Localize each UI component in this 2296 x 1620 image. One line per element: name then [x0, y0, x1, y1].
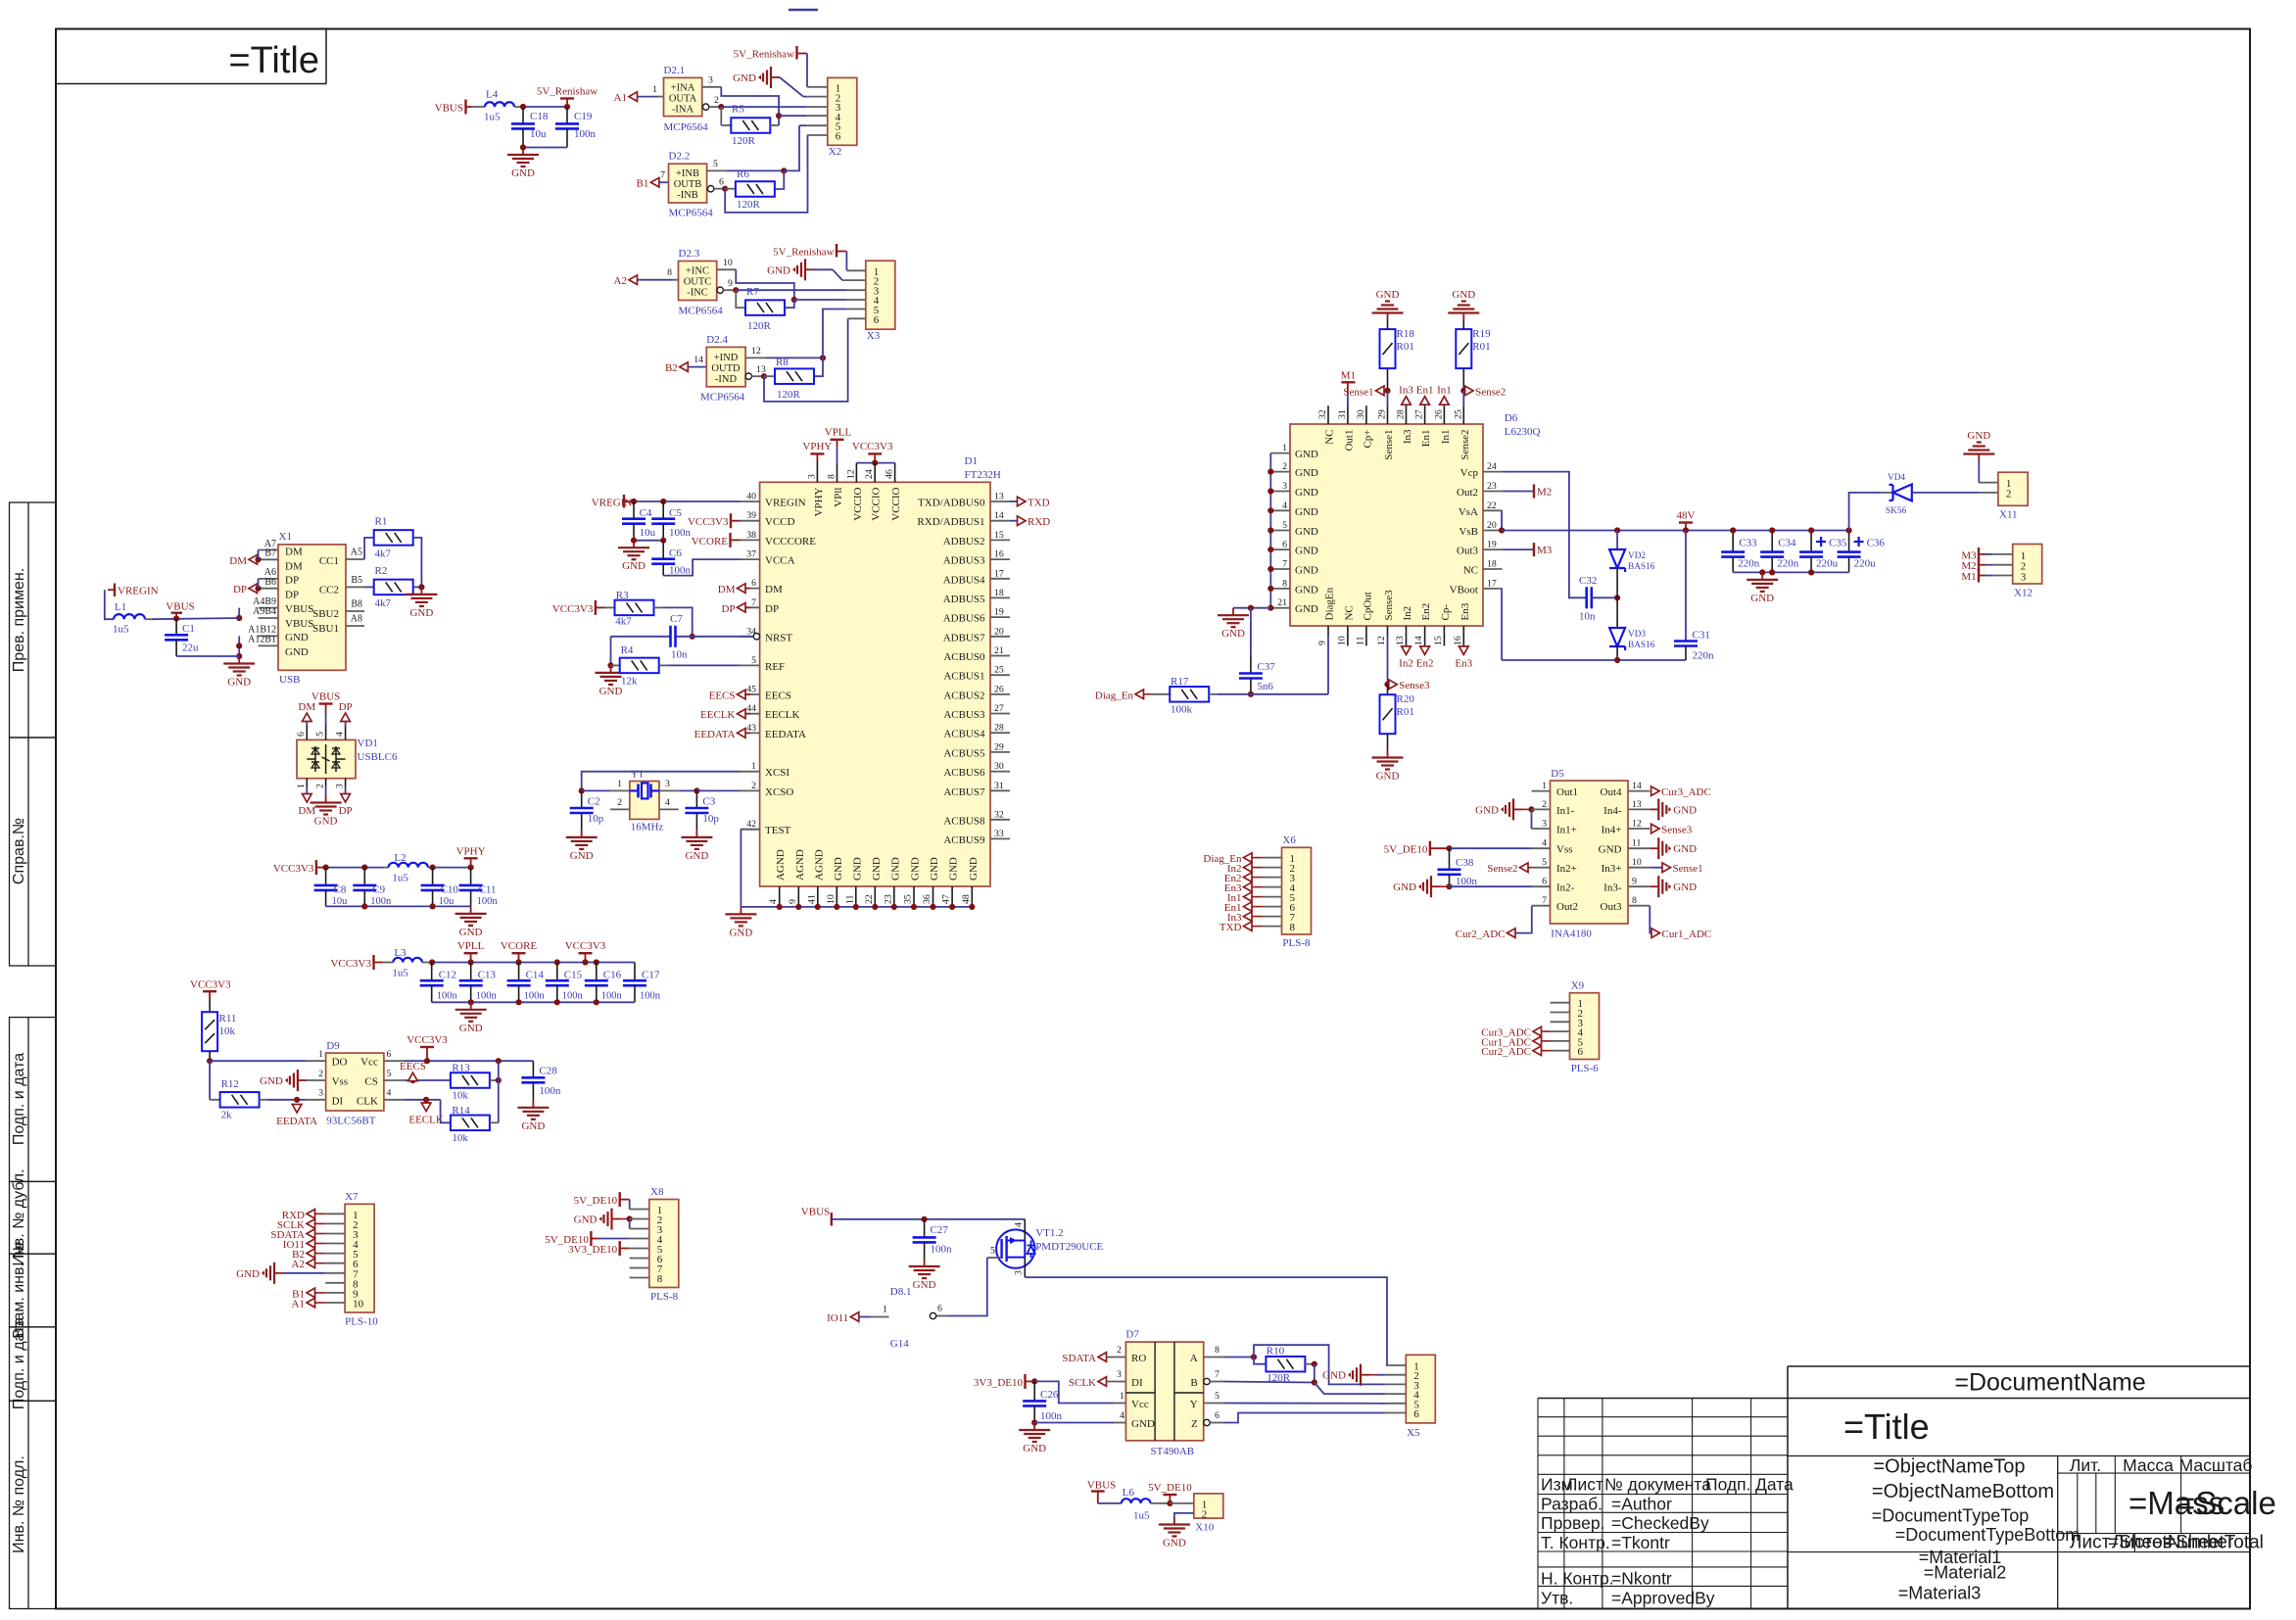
svg-text:VBUS: VBUS	[435, 103, 463, 115]
svg-text:B5: B5	[351, 575, 362, 586]
capacitor C37 5n6	[1250, 656, 1252, 674]
svg-text:C8: C8	[334, 884, 347, 896]
svg-text:VD4: VD4	[1888, 473, 1905, 483]
svg-text:2k: 2k	[221, 1110, 233, 1121]
wire X10 pin2 to GND	[1174, 1513, 1194, 1517]
svg-text:=Author: =Author	[1611, 1494, 1672, 1513]
ground GND right caps	[1761, 572, 1763, 580]
svg-text:C7: C7	[670, 613, 683, 625]
svg-text:B8: B8	[351, 599, 362, 610]
net flag DM at X1	[249, 555, 258, 565]
svg-text:4: 4	[334, 732, 345, 737]
svg-text:39: 39	[746, 510, 756, 521]
svg-text:27: 27	[994, 703, 1004, 714]
svg-text:9: 9	[728, 278, 733, 289]
resistor R2 4k7	[374, 580, 413, 596]
svg-text:2: 2	[1542, 799, 1547, 810]
net flag A1	[629, 92, 638, 102]
VT1 gate stub	[987, 1257, 1002, 1259]
svg-text:31: 31	[1337, 409, 1348, 419]
junction pin12 net	[820, 355, 826, 360]
net flag B2	[680, 362, 689, 372]
svg-text:Масштаб: Масштаб	[2179, 1455, 2253, 1475]
transistor VT1.2 PMDT290UCE	[996, 1229, 1034, 1267]
svg-text:Н. Контр.: Н. Контр.	[1541, 1569, 1614, 1589]
wire VREGIN down to L1	[105, 590, 114, 619]
svg-text:RO: RO	[1131, 1353, 1146, 1364]
svg-text:-INA: -INA	[672, 105, 694, 116]
junction C10	[430, 865, 436, 871]
svg-text:44: 44	[746, 703, 756, 714]
wire to R4	[611, 664, 620, 666]
svg-text:21: 21	[1277, 597, 1287, 608]
svg-text:16: 16	[994, 549, 1004, 560]
diode VD4 SK56	[1881, 492, 1893, 494]
svg-text:2: 2	[2006, 488, 2011, 500]
junction C26 bottom	[1031, 1419, 1037, 1425]
svg-text:12: 12	[845, 469, 856, 479]
wire A2 to D2.3 pin8	[638, 279, 674, 281]
net flag En1 up	[1420, 397, 1430, 405]
svg-text:AGND: AGND	[794, 849, 806, 881]
wire gate net to D8.1	[948, 1258, 987, 1316]
svg-text:A4B9: A4B9	[253, 596, 276, 607]
svg-text:C2: C2	[588, 796, 600, 808]
svg-text:GND: GND	[1673, 804, 1697, 816]
svg-text:In2: In2	[1402, 606, 1413, 621]
X9 pin flags Cur ADC	[1533, 1026, 1542, 1036]
svg-text:GND: GND	[685, 850, 708, 862]
svg-text:-INB: -INB	[677, 190, 698, 201]
svg-text:PLS-6: PLS-6	[1571, 1063, 1600, 1074]
svg-text:40: 40	[746, 492, 756, 502]
svg-text:Инв. № подл.: Инв. № подл.	[11, 1455, 27, 1553]
X11 pin stubs	[1979, 482, 1998, 484]
svg-text:D2.4: D2.4	[706, 334, 728, 346]
svg-text:3: 3	[708, 75, 713, 86]
svg-text:23: 23	[883, 894, 893, 904]
wire Vcp to C32	[1503, 472, 1586, 598]
svg-text:GND: GND	[889, 857, 901, 881]
svg-text:22: 22	[864, 894, 875, 904]
svg-text:27: 27	[1414, 409, 1425, 419]
svg-text:Подп. и дата: Подп. и дата	[11, 1053, 27, 1145]
resistor R8 120R	[775, 368, 814, 384]
svg-text:ACBUS6: ACBUS6	[943, 767, 985, 779]
svg-text:3V3_DE10: 3V3_DE10	[568, 1244, 618, 1256]
svg-text:A9B4: A9B4	[253, 606, 276, 617]
svg-text:DM: DM	[765, 584, 783, 596]
X7 pin9 pin10 flags	[307, 1288, 315, 1298]
wire GND row D7	[1034, 1422, 1114, 1424]
svg-text:En3: En3	[1455, 657, 1472, 669]
net flag EEDATA below D9	[292, 1105, 302, 1114]
wire M1 to Out1	[1347, 392, 1349, 405]
junction EECS	[409, 1077, 415, 1083]
svg-text:5V_Renishaw: 5V_Renishaw	[773, 247, 834, 259]
svg-text:En1: En1	[1416, 385, 1434, 397]
svg-text:D7: D7	[1125, 1329, 1139, 1341]
svg-text:R2: R2	[375, 565, 388, 577]
svg-text:17: 17	[994, 568, 1004, 579]
svg-text:Sense3: Sense3	[1399, 680, 1430, 691]
svg-text:Out3: Out3	[1601, 901, 1623, 913]
svg-text:R01: R01	[1397, 706, 1414, 718]
svg-text:INA4180: INA4180	[1551, 929, 1592, 940]
wire R18 to Sense1 junction	[1387, 368, 1389, 391]
ground GND below C3	[695, 830, 697, 837]
junction C27	[922, 1216, 928, 1222]
svg-text:6: 6	[719, 177, 724, 188]
svg-text:X12: X12	[2014, 588, 2033, 599]
junction R1/R2 GND	[418, 584, 424, 590]
wire DP pin jumper	[258, 579, 260, 589]
svg-text:36: 36	[922, 894, 933, 904]
wire junction up to X3 pin5	[823, 310, 846, 358]
svg-text:Cur1_ADC: Cur1_ADC	[1662, 929, 1712, 940]
svg-text:TXD: TXD	[1220, 922, 1242, 933]
svg-text:VCCD: VCCD	[765, 516, 795, 528]
wire to R20	[1387, 685, 1389, 695]
svg-text:3: 3	[334, 784, 345, 788]
svg-text:1u5: 1u5	[113, 624, 129, 636]
svg-text:X10: X10	[1195, 1522, 1214, 1534]
net flag RXD	[1010, 520, 1018, 522]
wire D2.4 pin12	[745, 357, 765, 358]
svg-text:R13: R13	[452, 1063, 470, 1074]
svg-text:VPHY: VPHY	[802, 441, 832, 453]
wire Vcc net	[405, 1060, 534, 1062]
svg-text:=ObjectNameBottom: =ObjectNameBottom	[1872, 1481, 2054, 1502]
svg-text:ACBUS5: ACBUS5	[943, 747, 985, 759]
svg-text:Sense2: Sense2	[1459, 430, 1471, 460]
net flag A2	[629, 275, 638, 285]
svg-text:17: 17	[1487, 578, 1497, 589]
svg-text:RXD: RXD	[1028, 516, 1050, 528]
ground GND sideways at In2-	[1431, 885, 1440, 887]
wire B diagonal to X5 pin4	[1315, 1383, 1386, 1395]
svg-text:100k: 100k	[1171, 704, 1193, 716]
IC D5 INA4180	[1551, 781, 1629, 924]
svg-text:1: 1	[1542, 781, 1547, 791]
svg-text:ACBUS9: ACBUS9	[943, 834, 985, 846]
wire Vcc path	[1034, 1381, 1114, 1403]
svg-text:X8: X8	[650, 1186, 664, 1198]
svg-text:GND: GND	[1163, 1538, 1186, 1549]
svg-text:10: 10	[723, 258, 733, 268]
svg-text:En2: En2	[1416, 657, 1434, 669]
VD1 inner symbol	[307, 758, 315, 760]
svg-text:6: 6	[836, 131, 841, 143]
svg-text:VBUS: VBUS	[1087, 1480, 1116, 1492]
wire D2.2 pin5	[707, 169, 727, 171]
svg-text:C19: C19	[574, 111, 593, 122]
svg-text:30: 30	[1356, 409, 1366, 419]
svg-text:5V_DE10: 5V_DE10	[1148, 1482, 1192, 1494]
svg-text:VCORE: VCORE	[501, 940, 538, 952]
svg-text:38: 38	[746, 530, 756, 541]
svg-text:R11: R11	[219, 1013, 237, 1024]
svg-text:VBUS: VBUS	[801, 1207, 830, 1218]
svg-text:In2-: In2-	[1556, 882, 1575, 894]
svg-text:Out4: Out4	[1601, 786, 1623, 798]
wire cap gnd bus right	[1733, 571, 1848, 573]
svg-text:4: 4	[1542, 838, 1547, 849]
capacitor C8 10u	[325, 868, 327, 885]
svg-text:OUTC: OUTC	[684, 277, 712, 288]
ground GND sideways at In1-	[1513, 808, 1522, 810]
net flag IO11	[850, 1312, 859, 1322]
svg-text:Провер.: Провер.	[1541, 1513, 1604, 1533]
svg-text:Лист: Лист	[1566, 1475, 1603, 1495]
svg-text:In4-: In4-	[1603, 805, 1622, 817]
svg-text:C4: C4	[640, 507, 652, 519]
wire DiagEn pin9 riser	[1327, 636, 1329, 694]
svg-text:100n: 100n	[669, 527, 692, 539]
svg-text:In2+: In2+	[1556, 863, 1577, 875]
svg-text:10: 10	[353, 1299, 364, 1310]
capacitor C11 100n	[470, 868, 472, 885]
svg-text:DP: DP	[339, 701, 353, 713]
svg-text:B2: B2	[665, 362, 678, 374]
svg-text:VCC3V3: VCC3V3	[688, 516, 729, 528]
wire Out3 to Cur1_ADC	[1628, 905, 1650, 907]
inverting pin 2 circle D2.1	[702, 104, 708, 110]
svg-text:GND: GND	[733, 72, 756, 84]
svg-text:4: 4	[1120, 1410, 1124, 1421]
junction EEDATA	[294, 1097, 300, 1103]
svg-text:№ документа: № документа	[1604, 1475, 1711, 1495]
svg-text:10n: 10n	[1579, 611, 1596, 623]
junction C18 bottom	[520, 144, 526, 150]
svg-text:10u: 10u	[640, 527, 656, 539]
svg-text:3: 3	[665, 779, 670, 789]
svg-text:VCORE: VCORE	[692, 536, 729, 548]
svg-text:18: 18	[994, 588, 1004, 598]
svg-text:AGND: AGND	[775, 849, 787, 881]
svg-text:M2: M2	[1537, 487, 1552, 499]
svg-text:L3: L3	[394, 947, 407, 959]
wire R2 right	[413, 586, 422, 588]
wire gnd to pin3	[629, 1219, 631, 1229]
wire VsB 48V rail	[1502, 530, 1849, 532]
VD1 pin6 wire up to DM arrow	[306, 726, 308, 739]
svg-text:22: 22	[1487, 500, 1497, 511]
svg-text:8: 8	[657, 1273, 663, 1285]
svg-text:2: 2	[714, 95, 719, 106]
svg-text:G14: G14	[890, 1338, 909, 1350]
svg-text:GND: GND	[729, 927, 752, 938]
svg-text:GND: GND	[871, 857, 883, 881]
svg-text:2: 2	[318, 1069, 323, 1079]
svg-text:VBUS: VBUS	[166, 600, 194, 612]
svg-text:En1: En1	[1420, 430, 1432, 448]
inverting pin 13 circle D2.4	[745, 373, 751, 379]
svg-text:VT1.2: VT1.2	[1035, 1227, 1063, 1239]
svg-text:24: 24	[864, 469, 875, 479]
svg-text:2: 2	[1282, 461, 1287, 472]
svg-text:OUTD: OUTD	[711, 363, 741, 374]
junction C3	[694, 787, 699, 793]
svg-text:C9: C9	[372, 884, 385, 896]
svg-text:R01: R01	[1397, 341, 1414, 353]
svg-text:GND: GND	[459, 1023, 483, 1034]
wire CLK to R14	[441, 1100, 451, 1123]
junction NRST	[690, 634, 695, 640]
wire pin9 to X3 pin3	[736, 289, 846, 291]
svg-text:11: 11	[844, 894, 855, 904]
svg-text:GND: GND	[409, 607, 433, 619]
svg-text:CC1: CC1	[319, 555, 339, 567]
ground GND sideways at In4-	[1628, 808, 1650, 810]
resistor R1 4k7	[374, 530, 413, 546]
relay contact D8.1 pin6 circle	[930, 1312, 935, 1318]
X5 pin stubs	[1386, 1364, 1407, 1366]
wire junction to X2 pin5 riser	[784, 125, 799, 170]
net flag Sense1	[1376, 386, 1385, 396]
svg-text:Diag_En: Diag_En	[1095, 690, 1134, 701]
ground GND sideways at D5 GND	[1628, 847, 1650, 849]
ground GND sideways at X3	[805, 268, 814, 270]
D6 left GND pins	[1270, 453, 1290, 454]
inverting pin 6 circle D2.2	[707, 186, 713, 192]
wire B net	[1223, 1382, 1315, 1383]
svg-text:GND: GND	[1295, 487, 1318, 499]
svg-text:Sense1: Sense1	[1673, 863, 1703, 875]
svg-text:SK56: SK56	[1886, 506, 1907, 516]
wire CC2 to R2	[364, 586, 374, 588]
X1 pin stubs left	[259, 549, 279, 551]
svg-text:C12: C12	[439, 969, 456, 980]
svg-text:35: 35	[903, 894, 914, 904]
svg-text:PLS-8: PLS-8	[1282, 937, 1311, 949]
junction VCCIO	[872, 460, 878, 466]
svg-text:In3: In3	[1402, 429, 1413, 444]
svg-text:C33: C33	[1739, 538, 1757, 549]
svg-text:GND: GND	[1295, 565, 1318, 577]
net flag In3 up	[1402, 397, 1411, 405]
wire In2-	[1450, 885, 1532, 887]
X7 pin8 stub	[325, 1282, 345, 1284]
svg-text:B7: B7	[264, 548, 276, 559]
VD1 pin1 wire down to DM arrow	[306, 779, 308, 786]
svg-text:100n: 100n	[562, 991, 584, 1002]
wire to X3 pin4	[794, 299, 846, 301]
ground GND left of D6	[1232, 608, 1234, 616]
svg-text:10n: 10n	[671, 649, 688, 661]
svg-text:C32: C32	[1579, 575, 1597, 587]
svg-text:DiagEn: DiagEn	[1324, 587, 1336, 620]
svg-text:8: 8	[1290, 922, 1296, 933]
svg-text:9: 9	[1317, 641, 1328, 645]
svg-text:GND: GND	[1023, 1443, 1046, 1454]
svg-text:NRST: NRST	[765, 632, 792, 643]
wire R14 right	[490, 1121, 499, 1123]
svg-text:13: 13	[1395, 636, 1406, 645]
svg-text:In1-: In1-	[1556, 805, 1575, 817]
svg-text:DM: DM	[285, 546, 303, 557]
svg-text:CC2: CC2	[319, 585, 339, 596]
svg-text:VPLL: VPLL	[825, 427, 852, 439]
junction D2.3 out net at X3 pin4 row	[791, 297, 797, 303]
svg-text:VCCIO: VCCIO	[871, 487, 883, 520]
svg-text:Прев. примен.: Прев. примен.	[11, 568, 27, 672]
svg-text:1: 1	[617, 779, 622, 789]
svg-text:10p: 10p	[702, 813, 719, 825]
svg-text:DM: DM	[298, 701, 315, 713]
connector X6 PLS-8	[1282, 847, 1312, 934]
svg-text:Z: Z	[1191, 1418, 1198, 1430]
svg-text:-INC: -INC	[687, 288, 708, 299]
resistor R7 120R	[745, 300, 785, 315]
junction In1-	[1528, 806, 1534, 812]
svg-text:9: 9	[1632, 877, 1637, 887]
svg-text:6: 6	[751, 578, 756, 589]
svg-text:8: 8	[667, 267, 672, 278]
svg-text:A5: A5	[351, 548, 362, 558]
capacitor C10 10u	[432, 868, 434, 885]
Y1 pin4 stub	[659, 808, 679, 810]
svg-text:B1: B1	[637, 178, 649, 190]
svg-text:100n: 100n	[931, 1244, 953, 1256]
svg-text:2: 2	[1117, 1345, 1122, 1356]
svg-text:16: 16	[1453, 636, 1463, 645]
ground GND below C4	[633, 541, 635, 548]
junction R13 right	[496, 1077, 502, 1083]
junction C34 C35 rail	[1730, 527, 1736, 533]
svg-text:GND: GND	[1599, 844, 1622, 856]
D6 bottom pin stubs	[1327, 626, 1329, 636]
svg-text:=Tkontr: =Tkontr	[1611, 1533, 1670, 1552]
svg-text:8: 8	[1632, 895, 1637, 906]
inverted pin circle D7 B	[1204, 1378, 1210, 1384]
svg-text:220u: 220u	[1854, 558, 1877, 570]
svg-text:3: 3	[318, 1088, 323, 1099]
svg-text:100n: 100n	[370, 896, 392, 907]
wire pin2 to X2 pin3	[721, 106, 807, 108]
svg-text:MCP6564: MCP6564	[664, 121, 709, 133]
junction C6 top	[660, 538, 666, 544]
wire CS row	[405, 1079, 451, 1081]
svg-text:ACBUS2: ACBUS2	[943, 690, 984, 701]
VD1 pin3 wire down to DP arrow	[345, 779, 347, 786]
VD1 pin4 wire up to DP arrow	[345, 726, 347, 739]
svg-text:VCCCORE: VCCCORE	[765, 536, 816, 548]
ground GND at D1 bus	[740, 907, 741, 915]
wire B1 to D2.2 pin7	[659, 181, 669, 183]
left margin column box Инв. № подл.	[10, 1401, 57, 1608]
svg-text:OUTB: OUTB	[674, 179, 702, 190]
svg-text:30: 30	[994, 761, 1004, 772]
svg-text:PLS-8: PLS-8	[650, 1291, 679, 1303]
wire A to X5 pin3	[1254, 1345, 1386, 1384]
svg-text:ACBUS8: ACBUS8	[943, 815, 985, 827]
svg-text:VBUS: VBUS	[285, 603, 313, 615]
svg-text:XCSO: XCSO	[765, 786, 793, 798]
svg-text:Y1: Y1	[631, 769, 644, 781]
wire VPHY gnd bus	[326, 905, 471, 907]
svg-text:Подп.: Подп.	[1705, 1475, 1750, 1495]
svg-text:5: 5	[387, 1069, 392, 1079]
wire D6 left gnd bus	[1269, 453, 1271, 608]
op-amp D2.1 MCP6564	[664, 77, 702, 116]
left margin column box Взам. инв. №	[10, 1254, 57, 1327]
capacitor C32 10n horizontal	[1585, 587, 1588, 608]
junction C26	[1031, 1378, 1037, 1384]
ground GND below C2	[581, 830, 583, 837]
junction C37 R17	[1248, 691, 1254, 697]
svg-text:D6: D6	[1505, 412, 1518, 424]
